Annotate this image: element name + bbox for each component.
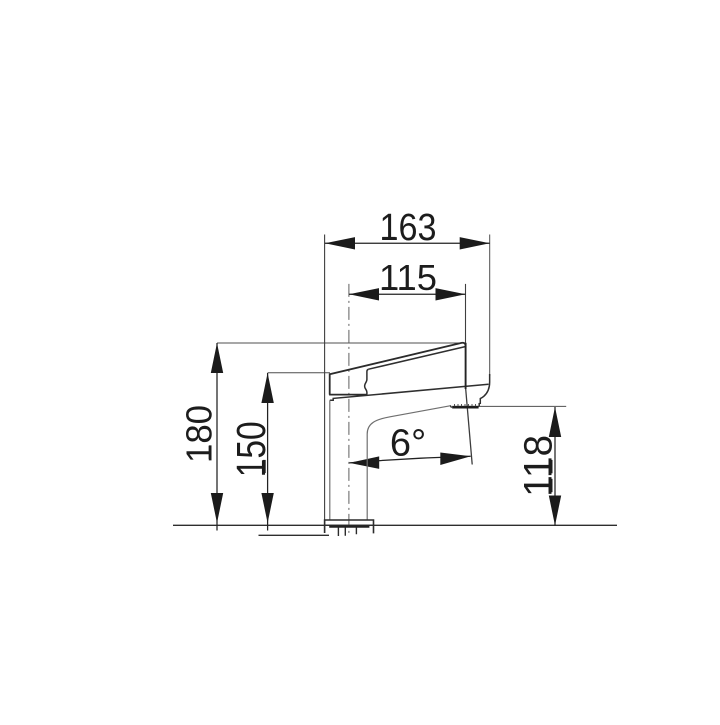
body left edge	[329, 400, 331, 520]
mounting surface line	[173, 524, 617, 526]
aerator screen ticks	[455, 404, 476, 406]
spout nose outline	[479, 374, 489, 407]
aerator face (thick band)	[452, 406, 478, 409]
counter thickness line	[259, 534, 330, 536]
body right edge with fillet to spout	[367, 406, 451, 521]
svg-text:163: 163	[380, 207, 437, 249]
base flange	[325, 520, 374, 533]
dim 6deg arc line	[349, 456, 470, 463]
svg-text:115: 115	[379, 257, 437, 298]
ext line 115 right	[465, 284, 467, 343]
dim 115 arrow left	[349, 288, 379, 300]
dim 150 line	[267, 373, 269, 531]
lever top edge	[330, 343, 466, 395]
dim 6deg arrow left	[349, 456, 379, 469]
ext line spout outlet (118 ref)	[454, 405, 566, 407]
dim 6deg arrow right	[440, 453, 471, 466]
body shoulder line (spout underside crease)	[330, 384, 489, 400]
dim 118 arrow top	[549, 407, 561, 437]
dim 118 arrow bottom	[549, 496, 561, 526]
svg-text:150: 150	[228, 421, 274, 477]
dim 163 arrow right	[460, 237, 490, 249]
6deg reference slant line	[466, 389, 473, 465]
ext line top of faucet (180 ref)	[217, 342, 464, 344]
serif feet of 1s in 115	[383, 287, 396, 290]
dim 180 arrow top	[211, 343, 223, 373]
aerator left step	[450, 405, 452, 407]
dim 163 arrow left	[325, 237, 355, 249]
dim 180 line	[216, 343, 218, 531]
dim 150 arrow top	[261, 373, 273, 403]
ext line 163 right	[489, 235, 491, 377]
centerline of body (dash-dot)	[348, 284, 350, 534]
svg-text:180: 180	[179, 405, 220, 463]
shank teeth	[338, 528, 356, 537]
ext line lever base top (150 ref)	[268, 372, 330, 374]
lever front vertical (with jog)	[365, 369, 369, 394]
svg-text:6°: 6°	[390, 423, 426, 465]
spout end face	[465, 343, 467, 389]
dim 180 arrow bottom	[211, 493, 223, 523]
dim 163 line	[325, 242, 490, 244]
serif foot of 1 in 163	[382, 237, 395, 240]
svg-text:118: 118	[517, 435, 561, 497]
serif foot of 1 in 180 (rotated)	[209, 446, 212, 459]
flange bottom edge	[325, 524, 374, 526]
ext line 163 left	[324, 235, 326, 534]
dim 118 line	[554, 407, 556, 526]
lever inner top edge	[369, 347, 466, 370]
dim 150 arrow bottom	[261, 493, 273, 523]
dim 115 line	[349, 293, 466, 295]
shank band under flange	[329, 525, 369, 527]
dim 115 arrow right	[436, 288, 466, 300]
serif foot of 1 in 150 (rotated)	[263, 460, 266, 473]
lever bottom edge	[329, 394, 367, 396]
serif feet of 1s in 118 (rotated)	[550, 479, 553, 492]
